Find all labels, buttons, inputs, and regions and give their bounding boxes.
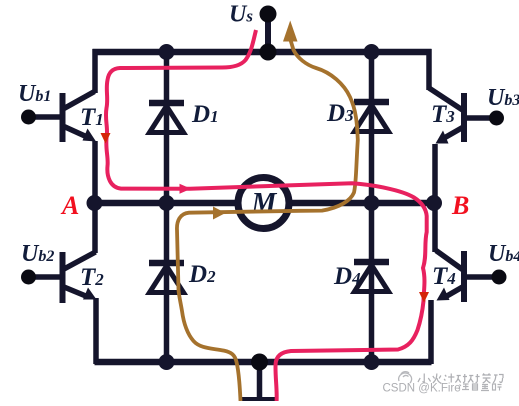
node D1 top junction <box>159 44 175 60</box>
diode D2 <box>149 263 184 293</box>
wire top rail <box>93 49 432 56</box>
wire D4 column <box>369 203 375 362</box>
watermark logo <box>399 372 412 383</box>
node Us rail dot <box>260 44 277 61</box>
node D4 bottom junction <box>364 354 380 370</box>
bottom terminal bar <box>242 397 277 402</box>
wire Us terminal stem <box>265 14 271 52</box>
wire node B to T4 collector lead <box>432 201 438 252</box>
diode D1 <box>149 103 184 133</box>
node Us top dot <box>260 6 277 23</box>
node D3 top junction <box>364 44 380 60</box>
node D1/D2 junction <box>159 195 175 211</box>
red arrow down at T4 <box>419 292 429 303</box>
wire D3 column <box>369 52 375 203</box>
node D2 bottom junction <box>159 354 175 370</box>
watermark line1 fake CJK 小火汁好好学习 <box>418 374 503 384</box>
wire D1 column <box>164 52 170 203</box>
wire mid rail A-B <box>94 200 434 207</box>
brown arrow right into motor <box>213 207 226 220</box>
svg-text:CSDN @K.Fire: CSDN @K.Fire <box>383 383 461 395</box>
wire left branch T2 emitter to bottom rail <box>93 298 99 364</box>
wire pink current path <box>106 30 427 401</box>
node A junction <box>87 195 103 211</box>
transistor T3 <box>429 88 504 144</box>
wire bottom terminal stem <box>257 362 263 397</box>
node D3/D4 junction <box>364 195 380 211</box>
svg-text:M: M <box>251 188 278 219</box>
diode D3 <box>354 102 389 132</box>
transistor T2 <box>21 252 97 303</box>
wire brown current path <box>177 40 358 401</box>
transistor T4 <box>436 251 507 303</box>
diode D4 <box>354 262 389 292</box>
wire D2 column <box>164 203 170 362</box>
svg-text:B: B <box>451 191 469 220</box>
wire T4 emitter lead to bottom rail <box>428 300 434 364</box>
wire bottom rail <box>95 359 432 366</box>
node bottom terminal junction <box>251 354 268 371</box>
wire left branch upper (T1 collector lead) <box>92 49 98 93</box>
brown arrow up near Us <box>283 21 298 42</box>
wire left branch node A to T2 collector <box>92 201 98 253</box>
motor M circle <box>238 178 289 229</box>
red arrow down at T1 <box>101 133 111 144</box>
svg-text:A: A <box>60 191 79 220</box>
wire right branch top (T3 collector lead) <box>426 49 432 90</box>
pink arrow right on A rail <box>180 184 192 194</box>
transistor T1 <box>21 92 96 143</box>
node B junction <box>426 195 442 211</box>
wire T3 emitter lead to node B <box>432 144 438 205</box>
wire left branch T1 emitter lead to node A <box>92 141 98 205</box>
